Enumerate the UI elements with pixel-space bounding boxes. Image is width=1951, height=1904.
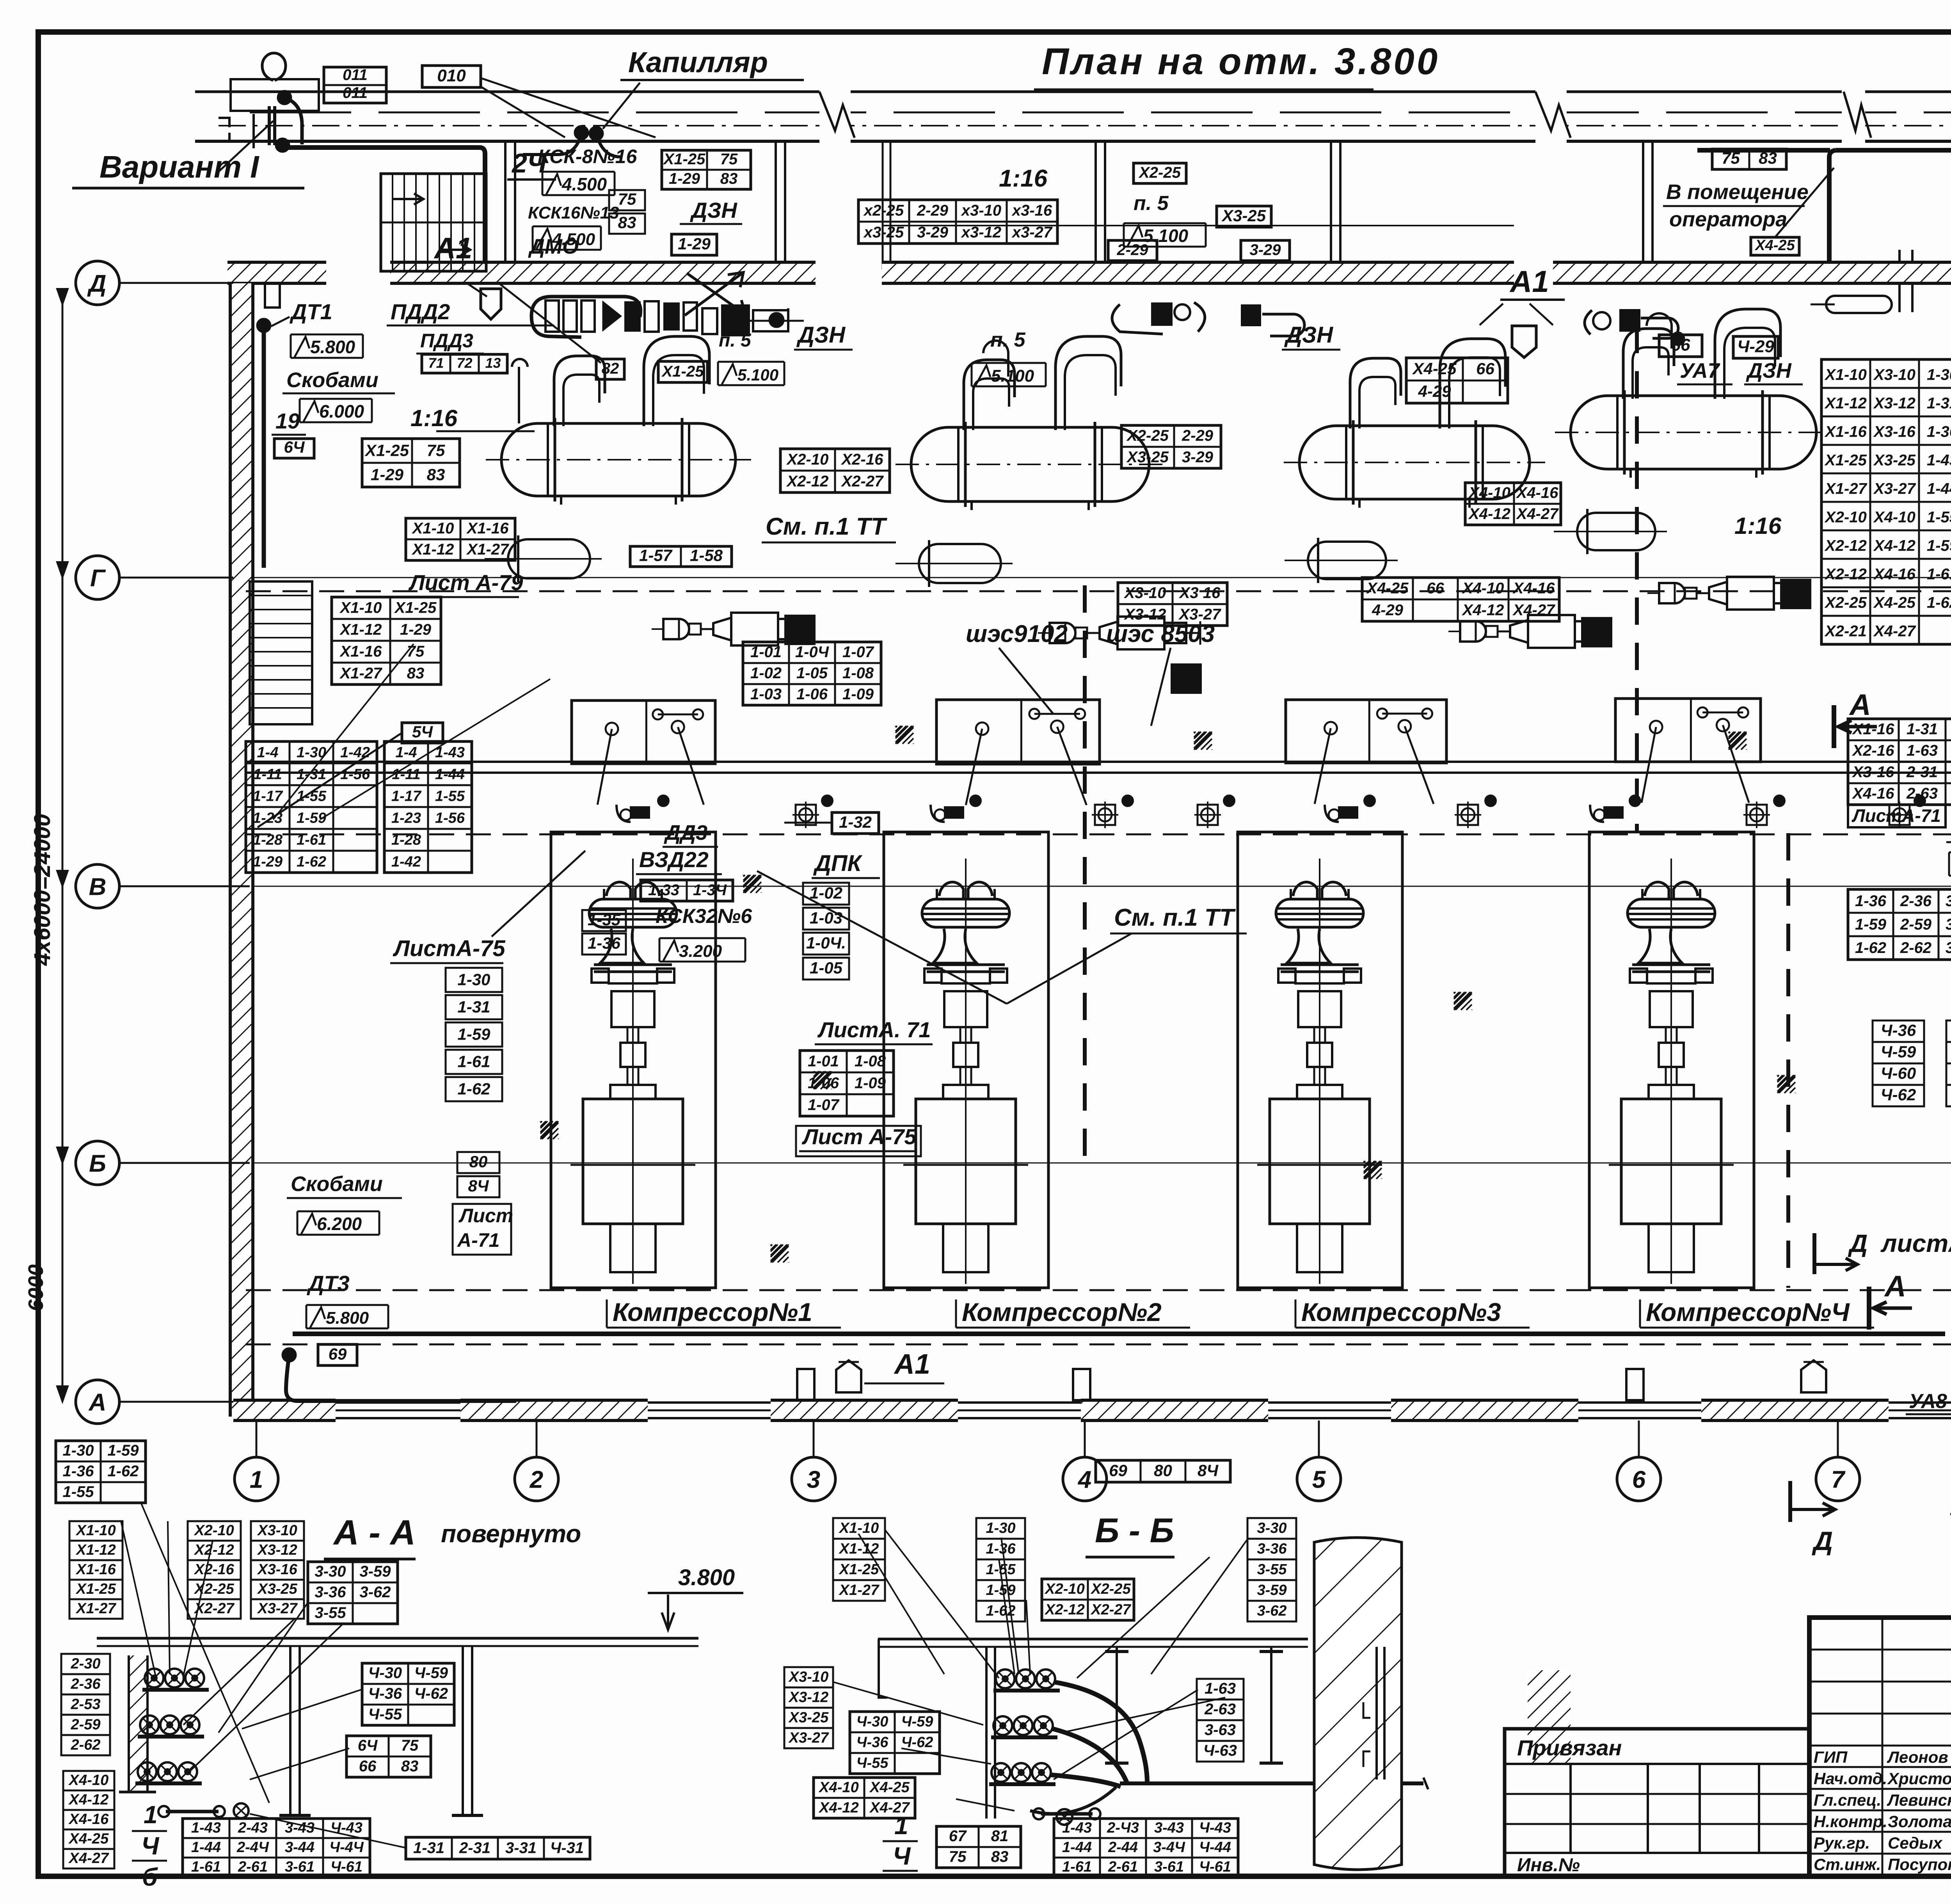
svg-text:Гл.спец.: Гл.спец.	[1814, 1791, 1881, 1809]
floor panel 2	[936, 700, 1100, 764]
svg-text:3-62: 3-62	[1257, 1603, 1286, 1619]
svg-text:Х4-16: Х4-16	[1873, 566, 1915, 583]
svg-text:Г: Г	[90, 565, 106, 592]
svg-text:Х1-25: Х1-25	[661, 363, 704, 380]
svg-text:3-62: 3-62	[1946, 939, 1951, 956]
compressor bay 2 outline	[884, 832, 1048, 1288]
svg-text:69: 69	[329, 1345, 347, 1363]
B-B table X3 col	[784, 1667, 833, 1687]
svg-text:Б: Б	[89, 1150, 106, 1177]
svg-text:1-62: 1-62	[1855, 939, 1886, 956]
svg-text:1-17: 1-17	[391, 788, 422, 804]
A-A table 2-30 col	[61, 1654, 110, 1674]
pipe drop x2270	[882, 141, 884, 269]
svg-text:1-31: 1-31	[413, 1839, 444, 1856]
svg-text:Х2-12: Х2-12	[194, 1542, 234, 1558]
svg-text:Х2-25: Х2-25	[194, 1581, 234, 1597]
svg-text:3-29: 3-29	[1182, 449, 1214, 466]
svg-text:Х1-25: Х1-25	[839, 1561, 879, 1578]
svg-text:Х1-16: Х1-16	[1852, 721, 1894, 738]
B-B table 3-30 col	[1247, 1518, 1296, 1539]
leader dots 010	[575, 126, 588, 139]
svg-text:Х4-27: Х4-27	[1516, 505, 1559, 523]
boxes 75 83 operator	[1712, 149, 1786, 169]
svg-text:Х1-16: Х1-16	[466, 520, 509, 537]
svg-text:2-31: 2-31	[1906, 764, 1938, 781]
svg-text:Ч-4Ч: Ч-4Ч	[329, 1839, 364, 1856]
dashed bottom y3438	[246, 1344, 1951, 1346]
svg-text:Х2-21: Х2-21	[1824, 623, 1867, 640]
title block main frame	[1809, 1618, 1951, 1876]
B-B bottom table 1-43	[1054, 1819, 1238, 1877]
svg-text:б: б	[142, 1863, 158, 1891]
svg-text:2-44: 2-44	[1108, 1839, 1138, 1856]
svg-text:3-59: 3-59	[1946, 916, 1951, 933]
svg-text:1: 1	[250, 1466, 263, 1493]
device under wall x4760	[1826, 296, 1892, 313]
compressor bay 4 outline	[1589, 832, 1754, 1288]
svg-text:2-59: 2-59	[70, 1716, 100, 1733]
canopy line over door span	[882, 225, 1514, 226]
box 3-29	[1241, 240, 1290, 261]
svg-text:1-01: 1-01	[750, 644, 782, 661]
svg-text:ВЗД22: ВЗД22	[639, 847, 709, 872]
table 1-01 group	[743, 642, 881, 705]
svg-text:2-59: 2-59	[1900, 916, 1932, 933]
svg-text:1-28: 1-28	[391, 832, 421, 848]
svg-text:х2-25: х2-25	[863, 202, 904, 219]
B-B table 4-30 4-59	[850, 1712, 940, 1774]
svg-text:1-29: 1-29	[253, 853, 283, 870]
svg-text:Ч-43: Ч-43	[1199, 1820, 1231, 1836]
svg-text:75: 75	[949, 1848, 967, 1865]
svg-text:1-62: 1-62	[457, 1080, 490, 1098]
B-B cable trios	[996, 1669, 1015, 1688]
compressor 3 machine	[1293, 882, 1346, 899]
table x2-25 group mid-top	[858, 200, 1057, 244]
boxes 80 84 list A-71	[457, 1152, 499, 1173]
svg-text:Х2-10: Х2-10	[1824, 509, 1867, 526]
svg-text:Х1-12: Х1-12	[1824, 395, 1867, 412]
svg-text:1-30: 1-30	[1927, 366, 1951, 384]
svg-text:1-61: 1-61	[191, 1859, 221, 1875]
svg-text:1-28: 1-28	[253, 832, 283, 848]
A-A table 4-30 4-59	[362, 1663, 454, 1725]
svg-text:Х2-25: Х2-25	[1138, 164, 1181, 181]
svg-text:Х4-16: Х4-16	[1852, 785, 1894, 802]
svg-text:Ч-29: Ч-29	[1737, 337, 1774, 356]
svg-text:3-62: 3-62	[359, 1584, 391, 1601]
svg-text:1:16: 1:16	[1734, 513, 1782, 539]
svg-text:3-4Ч: 3-4Ч	[1153, 1839, 1185, 1856]
tray devices	[630, 806, 650, 819]
svg-text:А1: А1	[1509, 264, 1549, 299]
svg-text:Ст.инж.: Ст.инж.	[1814, 1855, 1881, 1874]
box 66 center	[1659, 335, 1702, 357]
svg-text:1-43: 1-43	[1062, 1820, 1092, 1836]
svg-text:1-31: 1-31	[1927, 395, 1951, 412]
svg-text:Х3-10: Х3-10	[1124, 585, 1166, 602]
svg-text:Х3-12: Х3-12	[1873, 395, 1915, 412]
svg-text:1-03: 1-03	[750, 686, 782, 703]
svg-text:Золотарева: Золотарева	[1888, 1812, 1951, 1831]
svg-text:Х3-25: Х3-25	[1126, 449, 1169, 466]
svg-text:Х4-12: Х4-12	[1462, 601, 1504, 619]
svg-text:Х3-16: Х3-16	[1873, 423, 1915, 441]
svg-text:Х2-16: Х2-16	[194, 1561, 234, 1578]
svg-text:Капилляр: Капилляр	[628, 46, 768, 78]
svg-text:Х1-10: Х1-10	[412, 520, 454, 537]
svg-text:Х1-27: Х1-27	[1824, 480, 1867, 498]
B-B table X1 col	[833, 1518, 885, 1539]
svg-text:1-07: 1-07	[842, 644, 874, 661]
svg-text:ПДД3: ПДД3	[420, 330, 473, 352]
svg-text:ПДД2: ПДД2	[391, 299, 450, 324]
bay bottom dashed line	[246, 1289, 1951, 1291]
svg-text:х3-10: х3-10	[961, 202, 1001, 219]
svg-text:2-43: 2-43	[238, 1820, 268, 1836]
svg-text:Х2-25: Х2-25	[1824, 594, 1867, 612]
svg-text:Седых: Седых	[1888, 1834, 1943, 1852]
heat exchanger unit 1	[501, 423, 736, 496]
top pipe main run	[195, 91, 1951, 93]
A-A beam	[97, 1637, 698, 1640]
pipe drop x2000 capillary	[775, 141, 777, 269]
table 3-36 column	[1946, 1020, 1951, 1042]
svg-text:83: 83	[401, 1758, 419, 1775]
table x1-25 75 / 1-29 83	[362, 439, 460, 487]
svg-text:1-59: 1-59	[1855, 916, 1887, 933]
svg-text:Х2-16: Х2-16	[1852, 742, 1894, 759]
svg-text:3-44: 3-44	[285, 1839, 315, 1856]
svg-text:Х2-12: Х2-12	[1824, 537, 1867, 555]
svg-text:1: 1	[894, 1812, 908, 1840]
variant I fitting	[262, 53, 286, 80]
fitting right of A1	[1585, 310, 1592, 334]
svg-text:3-56: 3-56	[1946, 892, 1951, 910]
svg-text:1-42: 1-42	[391, 853, 421, 870]
svg-text:1-55: 1-55	[435, 788, 465, 804]
center machinery fittings row D	[1112, 304, 1163, 334]
compressor 2 machine	[939, 882, 992, 899]
pipe drop x4223	[1642, 141, 1644, 269]
svg-text:2-62: 2-62	[70, 1737, 100, 1753]
B-B table X2	[1042, 1579, 1134, 1620]
svg-text:Х4-25: Х4-25	[1754, 237, 1795, 254]
table x3-10 x3-16	[1118, 583, 1227, 626]
svg-text:Х2-12: Х2-12	[786, 473, 829, 490]
svg-text:Х2-10: Х2-10	[194, 1522, 234, 1539]
dashed run y1515	[246, 590, 1951, 592]
svg-text:1-29: 1-29	[371, 466, 404, 484]
svg-text:1-61: 1-61	[1062, 1859, 1092, 1875]
svg-text:75: 75	[407, 643, 425, 660]
svg-text:Ч-55: Ч-55	[368, 1706, 402, 1723]
svg-text:1-03: 1-03	[810, 908, 842, 927]
svg-text:4.500: 4.500	[561, 174, 607, 194]
svg-text:Х3-25: Х3-25	[1873, 452, 1915, 469]
svg-text:Х1-25: Х1-25	[1824, 452, 1867, 469]
svg-text:3-59: 3-59	[1257, 1582, 1286, 1598]
grid bubble D	[76, 261, 119, 305]
heavy dashed section line x2780	[1083, 585, 1087, 1165]
svg-text:ДПК: ДПК	[813, 851, 863, 876]
table 71 72 13	[422, 354, 507, 373]
label list A-71 under table	[1848, 805, 1946, 827]
svg-text:1:16: 1:16	[999, 165, 1048, 192]
svg-text:Х2-25: Х2-25	[1090, 1581, 1131, 1597]
svg-text:1-35: 1-35	[588, 910, 621, 929]
svg-text:1-44: 1-44	[1062, 1839, 1092, 1856]
svg-text:Ч-61: Ч-61	[330, 1859, 362, 1875]
svg-text:Х1-25: Х1-25	[663, 151, 705, 168]
svg-text:ДЗН: ДЗН	[1746, 359, 1792, 382]
pipe drop x1307	[504, 141, 506, 269]
svg-text:1-01: 1-01	[808, 1052, 839, 1070]
svg-text:1-59: 1-59	[986, 1582, 1015, 1598]
svg-text:2-30: 2-30	[70, 1655, 100, 1672]
svg-text:1-3Ч: 1-3Ч	[693, 882, 727, 899]
svg-text:19: 19	[275, 409, 300, 433]
floor panel 4	[1615, 699, 1761, 762]
svg-text:п. 5: п. 5	[1134, 192, 1169, 215]
svg-text:1-63: 1-63	[1907, 742, 1938, 759]
svg-text:7: 7	[1831, 1466, 1846, 1493]
svg-text:3-61: 3-61	[1154, 1859, 1184, 1875]
svg-text:Ч: Ч	[893, 1842, 911, 1870]
svg-text:Х4-27: Х4-27	[1873, 623, 1916, 640]
B-B table 1-63 col	[1197, 1679, 1244, 1700]
svg-text:Ч-55: Ч-55	[856, 1755, 889, 1771]
svg-text:1-31: 1-31	[297, 766, 326, 782]
svg-text:КСК-8№16: КСК-8№16	[538, 146, 637, 167]
box 011 011	[324, 67, 386, 103]
svg-text:Х3-25: Х3-25	[788, 1709, 829, 1726]
svg-text:5.100: 5.100	[1143, 226, 1189, 246]
svg-text:Х4-10: Х4-10	[1468, 484, 1510, 501]
dimension 4x6000=24000	[62, 304, 64, 1402]
svg-text:1-4: 1-4	[257, 744, 279, 761]
svg-text:1-08: 1-08	[855, 1052, 886, 1070]
pipe left end caps	[219, 118, 229, 141]
svg-text:Х1-16: Х1-16	[75, 1561, 116, 1578]
svg-text:Х4-12: Х4-12	[818, 1799, 858, 1816]
svg-text:1-58: 1-58	[690, 546, 723, 564]
svg-text:Ч-60: Ч-60	[1881, 1064, 1916, 1083]
svg-text:5.100: 5.100	[737, 366, 778, 384]
svg-text:1-23: 1-23	[391, 810, 421, 826]
box 1-29 left	[672, 234, 717, 255]
A-A posts	[289, 1646, 291, 1815]
svg-text:1-23: 1-23	[253, 810, 283, 826]
box 010	[422, 66, 481, 87]
svg-text:1-08: 1-08	[842, 665, 874, 682]
svg-text:1-44: 1-44	[1927, 480, 1951, 498]
svg-text:71: 71	[428, 355, 444, 371]
wall row D hatched band	[227, 262, 326, 283]
svg-text:Ч-59: Ч-59	[901, 1714, 933, 1730]
svg-text:Ч-63: Ч-63	[1203, 1742, 1237, 1759]
svg-text:1-43: 1-43	[1927, 452, 1951, 469]
svg-text:Х1-27: Х1-27	[466, 541, 509, 558]
svg-text:Х2-12: Х2-12	[1824, 566, 1867, 583]
svg-text:83: 83	[720, 170, 738, 187]
svg-text:2: 2	[530, 1466, 543, 1493]
svg-text:Х1-12: Х1-12	[839, 1541, 879, 1557]
svg-text:6: 6	[1632, 1466, 1646, 1493]
box 54	[402, 723, 443, 743]
svg-text:Х4-25: Х4-25	[1366, 580, 1409, 597]
svg-text:1-31: 1-31	[457, 998, 490, 1016]
stair left row G	[250, 581, 312, 724]
svg-text:Х4-10: Х4-10	[1873, 509, 1915, 526]
svg-text:1-02: 1-02	[810, 884, 842, 902]
extra B-B leaders	[858, 1534, 944, 1674]
svg-text:Лист А-75: Лист А-75	[801, 1124, 917, 1149]
svg-text:1-56: 1-56	[340, 766, 370, 782]
svg-text:1-05: 1-05	[796, 665, 828, 682]
table variant II codes	[1821, 359, 1951, 644]
svg-text:повернуто: повернуто	[441, 1520, 581, 1548]
svg-text:Х4-12: Х4-12	[68, 1792, 108, 1808]
flag D bottom near circle7	[1788, 1481, 1792, 1522]
svg-text:5: 5	[1312, 1466, 1326, 1493]
svg-text:011: 011	[343, 84, 368, 101]
svg-text:Х1-12: Х1-12	[75, 1542, 115, 1558]
svg-text:Инв.№: Инв.№	[1517, 1855, 1580, 1876]
svg-text:УА7: УА7	[1680, 359, 1721, 382]
B-B thick cables	[1054, 1682, 1147, 1783]
svg-text:75: 75	[618, 190, 636, 208]
svg-text:См. п.1 ТТ: См. п.1 ТТ	[766, 513, 888, 540]
svg-text:Х1-16: Х1-16	[339, 643, 382, 660]
svg-text:Ч-43: Ч-43	[330, 1820, 362, 1836]
table 4-36 column	[1873, 1020, 1924, 1042]
heat exchanger unit 3	[1299, 426, 1530, 499]
svg-text:69: 69	[1109, 1461, 1127, 1479]
svg-text:1-62: 1-62	[107, 1463, 139, 1480]
svg-text:1-55: 1-55	[62, 1483, 94, 1500]
svg-text:Привязан: Привязан	[1517, 1735, 1622, 1760]
svg-text:Х1-25: Х1-25	[75, 1581, 116, 1597]
svg-text:А-71: А-71	[457, 1229, 499, 1251]
svg-text:8Ч: 8Ч	[1198, 1461, 1219, 1479]
svg-text:1: 1	[144, 1801, 158, 1829]
svg-text:Х4-25: Х4-25	[1873, 594, 1915, 612]
A-A table X1 col	[69, 1521, 123, 1541]
svg-text:3-31: 3-31	[505, 1839, 537, 1856]
svg-text:3-55: 3-55	[315, 1604, 346, 1621]
svg-text:См. п.1 ТТ: См. п.1 ТТ	[1114, 904, 1236, 931]
cable DT3	[283, 1348, 296, 1362]
svg-text:Х2-27: Х2-27	[1090, 1602, 1131, 1618]
svg-text:Х4-10: Х4-10	[818, 1779, 858, 1796]
svg-text:Х3-27: Х3-27	[257, 1600, 298, 1617]
svg-text:Ч: Ч	[141, 1832, 160, 1860]
svg-text:3-61: 3-61	[285, 1859, 315, 1875]
cable tray double line	[246, 761, 1951, 763]
svg-text:75: 75	[720, 151, 738, 168]
B-B table 67 81 75 83	[936, 1826, 1021, 1868]
svg-text:Леонов: Леонов	[1887, 1748, 1948, 1766]
svg-text:3-63: 3-63	[1205, 1721, 1236, 1739]
svg-text:1-17: 1-17	[253, 788, 283, 804]
svg-text:3: 3	[807, 1466, 820, 1493]
svg-text:Компрессор№2: Компрессор№2	[962, 1298, 1162, 1326]
svg-text:ДЗН: ДЗН	[796, 322, 846, 348]
svg-text:6Ч: 6Ч	[284, 438, 305, 456]
A-A left wall column	[129, 1655, 147, 1792]
box x2-25 small	[1134, 163, 1186, 183]
A-A dumbbell	[166, 1810, 219, 1813]
svg-text:1-61: 1-61	[1927, 566, 1951, 583]
svg-text:Лист: Лист	[458, 1205, 513, 1227]
svg-text:6.200: 6.200	[317, 1214, 362, 1234]
grid bubble A	[76, 1380, 119, 1424]
grid bubble G	[76, 556, 119, 599]
svg-text:2-63: 2-63	[1204, 1701, 1236, 1718]
floor panel 3	[1286, 700, 1446, 763]
svg-text:Х4-10: Х4-10	[1462, 580, 1504, 597]
svg-text:шэс 8503: шэс 8503	[1106, 620, 1215, 647]
svg-text:1-62: 1-62	[297, 853, 326, 870]
svg-text:6.000: 6.000	[319, 401, 364, 421]
svg-text:Х2-27: Х2-27	[841, 473, 884, 490]
svg-text:Ч-62: Ч-62	[1881, 1086, 1916, 1104]
svg-text:Компрессор№Ч: Компрессор№Ч	[1646, 1298, 1850, 1326]
table 1-01 1-08 mid	[800, 1051, 894, 1116]
svg-text:1-0Ч.: 1-0Ч.	[806, 933, 846, 952]
svg-text:А - А: А - А	[333, 1513, 416, 1552]
A-A cable trios	[145, 1669, 163, 1687]
svg-text:1-36: 1-36	[62, 1463, 94, 1480]
svg-text:1-09: 1-09	[842, 686, 874, 703]
tray dark dots	[658, 795, 669, 806]
svg-text:3.800: 3.800	[678, 1565, 735, 1590]
A-A table X3 col	[251, 1521, 304, 1541]
svg-text:8Ч: 8Ч	[468, 1177, 489, 1195]
heavy dashed section line x4583	[1786, 833, 1790, 1288]
svg-text:4: 4	[1077, 1466, 1091, 1493]
svg-text:72: 72	[457, 355, 472, 371]
svg-text:3-59: 3-59	[359, 1563, 391, 1580]
svg-text:Ч-36: Ч-36	[856, 1734, 889, 1751]
top wall instruments PDD block	[531, 297, 641, 337]
svg-text:75: 75	[401, 1737, 419, 1754]
svg-text:5Ч: 5Ч	[412, 722, 433, 741]
A-A bottom table 1-43 grid	[183, 1819, 370, 1877]
svg-text:Х4-25: Х4-25	[68, 1831, 109, 1847]
pipe break marks	[819, 87, 851, 146]
svg-text:Х4-27: Х4-27	[68, 1850, 109, 1867]
svg-text:2-53: 2-53	[70, 1696, 100, 1712]
svg-text:75: 75	[427, 441, 445, 460]
svg-text:шэс9102: шэс9102	[966, 620, 1068, 647]
svg-text:Х1-10: Х1-10	[75, 1522, 115, 1539]
pipe drop x2820	[1095, 141, 1097, 269]
svg-text:Х4-27: Х4-27	[1512, 601, 1555, 619]
svg-text:УА8: УА8	[1909, 1390, 1947, 1413]
svg-text:5.100: 5.100	[991, 366, 1034, 386]
svg-text:Х3-25: Х3-25	[1221, 206, 1266, 225]
svg-text:ДТ1: ДТ1	[290, 299, 332, 324]
table 1-36 2-36 3-56 4-56	[1848, 889, 1951, 960]
svg-text:1-02: 1-02	[750, 665, 782, 682]
svg-text:010: 010	[437, 66, 466, 85]
svg-text:66: 66	[1427, 580, 1444, 597]
svg-text:х3-16: х3-16	[1011, 202, 1052, 219]
svg-text:1-32: 1-32	[839, 813, 872, 831]
